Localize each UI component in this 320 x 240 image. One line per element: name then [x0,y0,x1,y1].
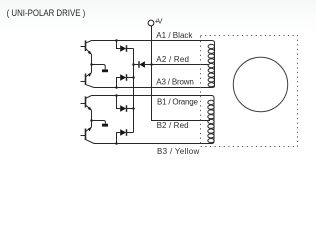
junction dots [90,39,153,145]
svg-text:( UNI-POLAR DRIVE ): ( UNI-POLAR DRIVE ) [7,7,86,18]
wire B1 [92,96,215,101]
diode D4 (B1 clamp) [117,96,134,112]
node Y wire (Q3/Q4 common emitter) [91,110,93,127]
svg-text:A3 / Brown: A3 / Brown [156,78,194,87]
ground pad A [102,69,108,72]
+V terminal [148,20,154,40]
wire A1 [92,41,215,45]
wire B3 [94,140,214,143]
svg-text:B3 / Yellow: B3 / Yellow [157,147,200,156]
diode D5 (B3 clamp) [117,129,134,143]
labels [155,16,200,155]
motor rotor circle [233,57,287,111]
ground stub B [92,121,106,124]
coil B [208,100,214,143]
ground pad B [102,124,108,127]
transistor Q4 [81,127,95,144]
node X wire (Q1/Q2 common emitter) [91,54,93,72]
svg-text:+V: +V [155,16,164,25]
svg-text:B1 / Orange: B1 / Orange [157,98,198,107]
svg-text:A2 / Red: A2 / Red [156,55,189,64]
clamp bus [133,49,135,133]
diode D1 (A1 clamp) [117,41,134,52]
motor outline box (dashed) [201,36,298,147]
wire A3 [94,85,215,88]
transistor Q2 [81,72,95,87]
svg-text:B2 / Red: B2 / Red [157,121,189,130]
diode D3 (A3 clamp) [117,74,134,87]
+V supply line [152,41,211,121]
ground stub A (common emitter return) [92,65,106,70]
svg-text:A1 / Black: A1 / Black [156,31,193,40]
transistor Q1 [81,40,92,54]
diode D2 (zener to +V) [134,61,152,68]
wire A2 [152,64,209,66]
coil A [208,44,214,87]
transistor Q3 [81,96,92,111]
